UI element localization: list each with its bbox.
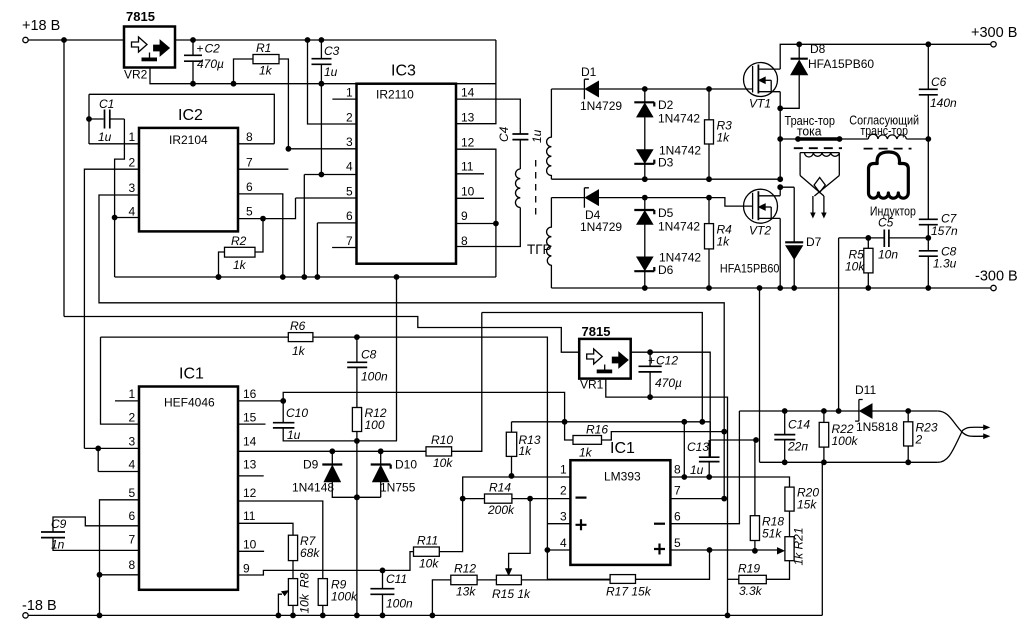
svg-text:+18 В: +18 В [22,18,60,34]
junction node (784.7,462.3) [782,459,788,465]
svg-text:R10: R10 [431,433,453,447]
junction node (724.2,498.6) [721,496,727,502]
core dashes CT [794,147,842,149]
svg-text:3: 3 [560,510,567,524]
svg-text:R14: R14 [489,481,511,495]
junction node (839.5,139) [837,136,843,142]
svg-text:1u: 1u [324,65,338,79]
svg-text:8: 8 [129,558,136,572]
capacitor C10 1u [273,401,397,442]
junction node (99.5,574.8) [97,572,103,578]
wire mid bus y179 [551,178,778,180]
wire D5 chain vertical [644,198,646,288]
diode D3 1N4742 zener [634,144,701,170]
svg-text:5: 5 [129,486,136,500]
capacitor C8 100n [347,337,388,407]
svg-text:R11: R11 [417,534,438,548]
junction node (798,139) [795,136,801,142]
svg-text:7815: 7815 [126,9,155,24]
junction node (908.2,411) [905,408,911,414]
wire IC1 pin10 stub [238,550,264,552]
wire IC1 pin15 stub [238,423,266,425]
svg-text:22п: 22п [787,440,808,454]
transformer TGR core dashed [535,160,537,215]
wire VR2 ground drop [150,68,496,84]
svg-text:100n: 100n [386,597,413,611]
wire IC3 pin14 to C4 [456,99,520,134]
svg-text:+: + [648,354,655,368]
junction node (218.5,277) [216,274,222,280]
wire +15 corner down to C13 [710,422,756,458]
svg-text:C6: C6 [931,75,947,89]
wire IC1 pin1 stub [115,400,139,402]
transformer TGR upper secondary [547,89,552,179]
resistor R6 1k [101,319,548,579]
svg-text:1u: 1u [98,130,112,144]
wire LM393 pin7 [670,498,724,500]
junction node (356.9,497.3) [354,494,360,500]
svg-text:D5: D5 [658,206,674,220]
wire -18 riser to output [821,462,823,615]
svg-text:+: + [197,42,204,56]
capacitor C8 1.3u [919,238,957,288]
wire lower gate bus y197.6 [551,198,744,207]
junction node (332.3,451.3) [329,448,335,454]
svg-text:D8: D8 [810,42,826,56]
wire IC2 pin3 [99,195,724,499]
svg-text:4: 4 [560,536,567,550]
junction node (759.5,288) [757,285,763,291]
inductor bold shape [869,152,916,219]
resistor R1 1k [234,41,289,149]
svg-text:68k: 68k [300,546,320,560]
svg-text:1u: 1u [530,129,544,143]
junction node (283.2,400.9) [280,398,286,404]
wire IC1 pin12 to R9 [238,501,323,579]
junction node (644.8,179.2) [642,176,648,182]
svg-text:8: 8 [246,130,253,144]
wire output top bus y411 [739,410,937,412]
svg-text:1u: 1u [690,463,704,477]
wire C1 right to IC2 pin1 [115,119,125,218]
svg-text:1k: 1k [717,131,731,145]
IC3 IR2110 [346,63,475,264]
svg-text:R19: R19 [738,562,760,576]
svg-text:4: 4 [346,160,353,174]
junction node (709,179.2) [706,176,712,182]
svg-text:157n: 157n [931,224,958,238]
svg-text:10n: 10n [878,248,898,262]
svg-text:-300 В: -300 В [975,269,1018,285]
junction node (709,89) [706,86,712,92]
junction node (756,440) [753,437,759,443]
svg-text:D3: D3 [658,156,674,170]
junction node (322.8,615.4) [320,613,326,619]
regulator VR2 7815 [124,9,175,82]
svg-text:1N4742: 1N4742 [658,220,700,234]
resistor R21 1k potentiometer [766,527,805,579]
junction node (432.4,615.4) [430,613,436,619]
wire +15 rail y422 [512,421,711,423]
regulator VR1 7815 [579,324,631,392]
svg-text:1k: 1k [579,446,593,460]
junction node (99.5,615.4) [97,613,103,619]
svg-text:16: 16 [243,387,257,401]
wire top rail branch to IC3 pin2 [308,40,357,124]
wire IC3 pin5 lead [296,197,357,199]
junction node (727.5,615.4) [725,613,731,619]
wire C5/R5 net [839,238,929,288]
wire IC3 pin10 stub [456,197,484,199]
svg-text:3.3k: 3.3k [739,584,763,598]
svg-text:6: 6 [346,209,353,223]
junction node (868.3,288) [865,285,871,291]
svg-text:HEF4046: HEF4046 [164,396,215,410]
svg-text:D2: D2 [658,98,674,112]
junction node (702.3,421.8) [699,419,705,425]
diode D2 1N4742 zener [634,98,700,126]
node junction +18 split [61,37,67,43]
svg-text:C10: C10 [286,406,308,420]
junction node (754.9,550.8) [752,548,758,554]
svg-text:6: 6 [674,510,681,524]
svg-text:7: 7 [129,533,136,547]
svg-text:1k: 1k [717,235,731,249]
junction node (709.2,477) [706,474,712,480]
svg-text:140n: 140n [930,96,957,110]
diode D9 1N4148 [292,451,381,497]
junction node (530.1,498.6) [527,496,533,502]
svg-text:1k: 1k [292,344,306,358]
comparator IC1 LM393 [560,440,681,565]
junction node (193,40) [190,37,196,43]
junction node (114.6,217.5) [112,215,118,221]
svg-text:C14: C14 [788,418,810,432]
resistor R3 1k [705,89,733,179]
svg-text:IC3: IC3 [391,63,416,80]
svg-text:2: 2 [915,433,923,447]
svg-text:10k: 10k [298,593,312,613]
junction node (780.2,187.2) [777,184,783,190]
junction node (317.4,277) [315,274,321,280]
junction node (928.3,237.9) [925,235,931,241]
svg-text:3: 3 [129,435,136,449]
junction node (307.5,40) [305,37,311,43]
wire LM393 pin6 riser [670,411,739,524]
svg-text:9: 9 [461,209,468,223]
svg-text:IC1: IC1 [610,440,635,457]
junction node (382.5,615.4) [380,613,386,619]
svg-text:D11: D11 [855,383,876,397]
output twisted pair [938,411,990,462]
svg-text:HFA15PB60: HFA15PB60 [808,57,874,71]
diode D10 1N755 [371,451,418,497]
wire IC1 pin5 pin8 common [100,500,140,616]
wire IC2 pin8 [238,143,274,145]
junction node (709,288) [706,285,712,291]
svg-text:11: 11 [461,160,474,174]
svg-text:C5: C5 [878,216,894,230]
wire -300 bus [551,287,990,289]
capacitor C11 100n [370,570,413,615]
junction node (928.3,288) [925,285,931,291]
junction node (684.3,421.8) [681,419,687,425]
svg-text:5: 5 [674,536,681,550]
wire upper gate bus y89 [551,88,744,90]
svg-text:C9: C9 [51,517,67,531]
capacitor C2 [184,40,224,84]
wire VR1 out to +15 [631,352,711,457]
capacitor C7 157n [919,139,958,238]
svg-text:IR2110: IR2110 [376,88,414,102]
wire IC3 pin6 lead [317,223,356,277]
junction node (321.4,40) [319,37,325,43]
capacitor C14 22n [774,411,810,462]
svg-text:100k: 100k [832,434,859,448]
capacitor C3 [312,40,340,84]
svg-text:ТГР: ТГР [527,242,552,257]
diode D1 1N4729 [580,65,622,113]
svg-text:VT1: VT1 [749,97,771,111]
resistor R12 100 [352,406,386,615]
svg-text:4: 4 [129,205,136,219]
capacitor C9 1n [41,517,139,552]
junction node (684.3,477) [681,474,687,480]
svg-text:VR1: VR1 [580,378,604,392]
svg-text:6: 6 [246,180,253,194]
wire IC2 pin4 [115,218,139,278]
svg-text:1N4729: 1N4729 [580,220,622,234]
wire +18 horizontal feed to VR1 [64,317,579,353]
svg-text:1k: 1k [259,64,273,78]
wire +18 top rail [28,39,496,41]
svg-text:14: 14 [461,86,475,100]
svg-text:R12: R12 [454,562,476,576]
resistor R2 1k [219,219,264,277]
svg-text:1.3u: 1.3u [933,257,957,271]
svg-text:C8: C8 [361,348,377,362]
CT secondary winding and phase cross [800,153,839,218]
wire LM393 pin4 [547,549,570,551]
svg-text:470µ: 470µ [655,376,682,390]
wire C5 sense drop [838,288,840,411]
svg-text:1k R21: 1k R21 [792,527,806,565]
node D5 junction [642,195,648,201]
junction node (908.2,462.3) [905,459,911,465]
svg-text:10: 10 [461,185,475,199]
junction node (780.2,288) [777,285,783,291]
junction node (293,615.4) [290,613,296,619]
terminal -18V [22,598,57,618]
IC2 IR2104 [129,107,254,231]
resistor R15 1k potentiometer [492,575,610,601]
wire LM393 pin1 net [463,477,571,499]
junction node (356.9,337.1) [354,334,360,340]
wire bottom rail [28,614,822,616]
svg-text:100k: 100k [331,590,358,604]
svg-text:1N4148: 1N4148 [292,481,334,495]
transistor VT2 MOSFET [720,189,780,276]
svg-text:15k: 15k [797,498,817,512]
matching transformer winding [868,134,906,139]
junction node (304.3,277) [301,274,307,280]
svg-text:LM393: LM393 [604,470,641,484]
svg-text:C1: C1 [99,97,114,111]
junction node (382.5,570.4) [380,568,386,574]
junction node (278.4,615.4) [276,613,282,619]
junction node (396.5,277) [394,274,400,280]
svg-text:IC2: IC2 [178,107,203,124]
capacitor C6 140n [919,44,957,136]
svg-text:7: 7 [346,234,353,248]
wire IC1 pin13 stub [238,475,264,477]
junction node (547.4,550) [545,547,551,553]
resistor R19 3.3k [728,562,767,599]
svg-text:10k: 10k [845,260,865,274]
svg-text:R16: R16 [586,423,608,437]
wire LM393 pin2 to R14 [512,498,571,500]
wire IC1 pin11 to R7 [238,523,293,535]
svg-text:R2: R2 [231,234,247,248]
wire IC2 pin1 lead [89,143,139,145]
junction node (380.7,451.3) [378,448,384,454]
wire IC3 pin12 down to pin9 and COM rail [456,149,496,277]
wire IC3 pin4 lead [304,175,356,278]
resistor R13 1k [506,422,541,476]
wire IC1 pin3 pin4 [84,448,139,471]
diode D4 1N4729 [580,188,622,234]
svg-text:10: 10 [243,538,257,552]
svg-text:10k: 10k [419,557,439,571]
junction node (928.3,44.3) [925,41,931,47]
wire R14 junction to R15 wiper [509,499,530,571]
wire VR1 gnd [606,379,728,616]
wire LM393 pin8 lead [670,477,789,487]
junction node (193,83.7) [190,81,196,87]
svg-text:R8: R8 [298,572,312,588]
junction node (784.7,411) [782,408,788,414]
svg-text:1u: 1u [287,428,301,442]
junction node (644.8,288) [642,285,648,291]
capacitor C12 470u [639,352,683,397]
wire IC3 pin13 [456,40,496,124]
wire +15 feed upper [482,313,703,422]
capacitor C13 1u [687,440,720,477]
junction node (462.7,498.6) [460,496,466,502]
diode D5 1N4742 zener [634,206,700,234]
wire VT2 drain jog [780,187,794,196]
capacitor C1 [89,94,124,144]
svg-text:1N5818: 1N5818 [856,420,898,434]
svg-text:1: 1 [560,463,567,477]
capacitor C5 10n [878,216,898,262]
svg-text:51k: 51k [762,527,782,541]
wire C1 loop to pin8 net [89,94,274,144]
wire R16 +15 drop to pin8 [683,422,685,477]
junction node (780.2,108.3) [777,105,783,111]
wire main bus y139 with CT primary [780,138,798,140]
wire IC3 pin11 stub [456,173,484,175]
svg-text:3: 3 [129,181,136,195]
svg-text:2: 2 [129,411,136,425]
svg-text:1k: 1k [233,258,247,272]
svg-text:тока: тока [797,124,822,138]
diode D11 1N5818 [855,383,898,434]
junction node (928.3,139) [925,136,931,142]
resistor R5 10k [845,238,873,288]
junction node (321.4,83.7) [319,81,325,87]
wire output bottom bus y462.3 [760,288,938,462]
svg-text:470µ: 470µ [197,57,224,71]
junction node (709.5,550) [707,547,713,553]
svg-text:15: 15 [243,411,257,425]
junction node (321.4,174.5) [319,172,325,178]
svg-text:100: 100 [365,418,385,432]
wire IC1 pin9 bus [238,552,414,575]
svg-text:13: 13 [243,458,257,472]
svg-text:1N4742: 1N4742 [658,112,700,126]
svg-text:1: 1 [129,130,136,144]
resistor R8 10k potentiometer [278,572,311,615]
junction node (780.2,139) [777,136,783,142]
svg-text:R17 15k: R17 15k [606,585,652,599]
wire D2 chain vertical [644,89,646,179]
svg-text:12: 12 [243,486,257,500]
svg-text:HFA15PB60: HFA15PB60 [720,262,780,276]
svg-text:C13: C13 [687,440,709,454]
svg-text:R6: R6 [290,319,306,333]
diode D8 HFA15PB60 [780,42,874,108]
svg-text:100n: 100n [361,370,388,384]
svg-text:1n: 1n [51,538,65,552]
svg-text:6: 6 [129,509,136,523]
resistor R16 1k [565,422,725,460]
junction node (356.9,615.4) [354,613,360,619]
svg-text:D7: D7 [806,235,822,249]
svg-text:14: 14 [243,435,257,449]
junction node (799.2,44.3) [796,41,802,47]
wire COM rail y277 [115,276,496,278]
junction node (724.2,431.6) [721,429,727,435]
resistor R7 68k [288,534,320,579]
resistor R20 15k [785,486,819,537]
junction node (650.1,397.1) [647,394,653,400]
junction node (823.9,462.3) [821,459,827,465]
junction node (564.6,421.8) [562,419,568,425]
wire LM393 pin5 net [670,549,780,551]
resistor R12 13k [432,562,496,616]
svg-text:R1: R1 [256,41,271,55]
svg-text:5: 5 [246,205,253,219]
svg-text:2: 2 [129,156,136,170]
wire VT1 source chain [779,92,781,180]
junction node (511.5,475.9) [509,473,515,479]
junction node (263,218.6) [260,216,266,222]
svg-text:13k: 13k [456,585,476,599]
junction node (780.2,179.2) [777,176,783,182]
svg-text:4: 4 [129,458,136,472]
svg-text:D10: D10 [395,458,417,472]
junction node (288.4,148.8) [286,146,292,152]
svg-text:1k: 1k [519,444,533,458]
terminal +18V [22,18,60,43]
junction node (868.3,237.9) [865,235,871,241]
svg-text:D6: D6 [658,263,674,277]
resistor R9 100k [318,578,358,616]
svg-text:1: 1 [129,387,136,401]
junction node (794.2,288) [791,285,797,291]
resistor R18 51k [750,440,784,551]
